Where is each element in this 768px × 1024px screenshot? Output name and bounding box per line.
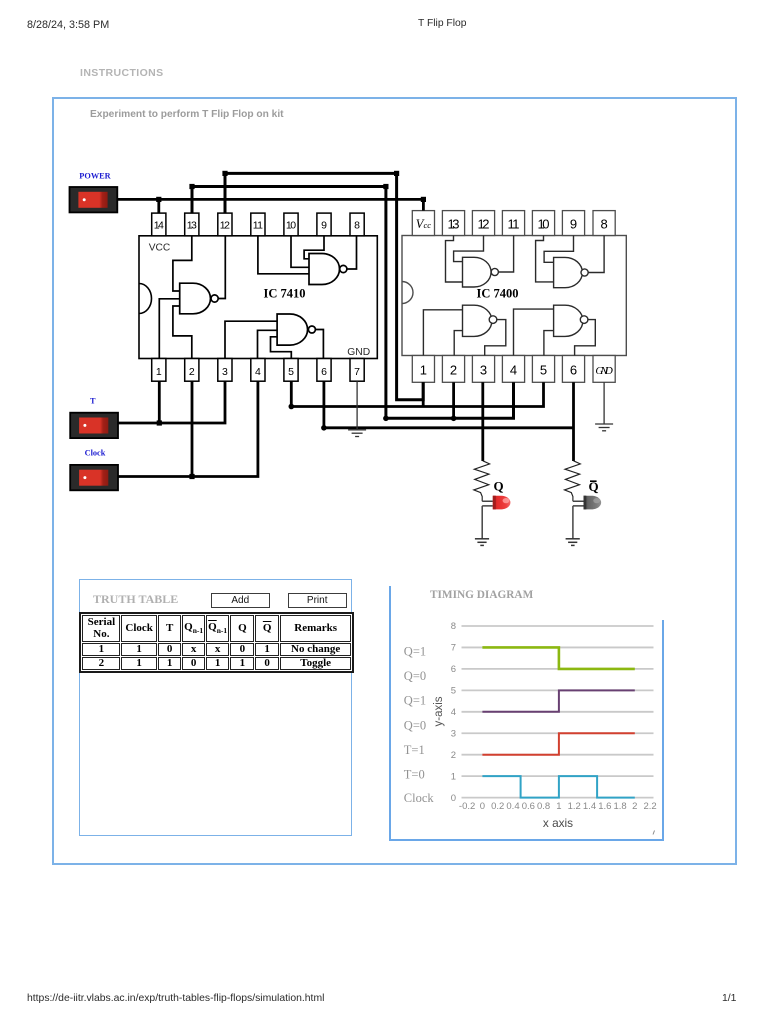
wire T switch to U1 pins 1,3 <box>118 381 225 423</box>
wire Clock switch to U1 pins 2,4 <box>118 381 258 476</box>
U1 gate C input wire from pin 4 <box>258 330 278 358</box>
U2 gate 1 output wire to pin 11 <box>498 236 513 273</box>
U2 gate 3 body <box>463 305 497 336</box>
U2 gate 4 body <box>554 305 588 336</box>
IC U2 bottom pin boxes 1-6,GND <box>412 356 615 383</box>
Print button <box>288 593 347 608</box>
print header date <box>27 19 109 31</box>
U2 gate 2 output wire to pin 8 <box>588 236 604 273</box>
IC U2 top pin labels <box>416 217 608 232</box>
IC U2 bottom pin labels <box>420 363 613 378</box>
svg-text:1: 1 <box>556 801 561 812</box>
svg-text:Clock: Clock <box>85 448 106 457</box>
footer page <box>722 993 736 1004</box>
svg-text:POWER: POWER <box>79 171 111 180</box>
svg-text:11: 11 <box>508 217 520 232</box>
svg-text:2: 2 <box>451 750 456 761</box>
wire U2 pin 2 drop <box>452 382 455 418</box>
IC U1 top pin boxes 14-8 <box>152 213 365 236</box>
svg-text:GND: GND <box>595 365 613 377</box>
svg-text:4: 4 <box>510 363 517 378</box>
POWER switch S1 <box>70 187 118 212</box>
U2 gate 2 body <box>554 257 589 287</box>
wire U2 pin 6 down to resistor R2 <box>572 382 575 461</box>
U1 gate C input wire from pin 5 <box>271 337 292 359</box>
junction dot at pin 14 branch <box>156 197 161 202</box>
IC U1 bottom pin boxes 1-7 <box>152 359 365 382</box>
wire U1 pin 2 drop <box>191 381 194 476</box>
svg-text:Vcc: Vcc <box>416 217 431 231</box>
footer url <box>27 993 324 1004</box>
series Clock blue <box>482 776 634 797</box>
IC U2 top pin boxes Vcc,13-8 <box>412 211 615 236</box>
LED D2 body (Qbar, dark) <box>584 496 602 510</box>
ground under U2 GND pin <box>595 382 613 431</box>
svg-text:14: 14 <box>154 220 164 232</box>
svg-text:8: 8 <box>600 217 607 232</box>
svg-text:Q=0: Q=0 <box>404 669 426 683</box>
ground under LED D1 <box>475 539 489 546</box>
U1 gate A output wire to pin 12 <box>218 236 225 299</box>
junction dot U1 pin 5 corner <box>289 404 295 410</box>
ground under U1 pin 7 <box>348 381 366 436</box>
svg-text:8: 8 <box>451 621 456 632</box>
wire U1 pin 5 to U2 pin 5 <box>291 381 543 406</box>
chart x tick labels <box>459 801 657 812</box>
svg-text:13: 13 <box>187 220 197 232</box>
series T red <box>482 733 634 754</box>
IC U2 body (IC 7400) <box>402 236 626 356</box>
svg-text:Q=1: Q=1 <box>404 645 426 659</box>
svg-text:12: 12 <box>220 220 230 232</box>
U1 gate B input wire from pin 11 <box>258 236 309 274</box>
U1 gate A body <box>180 283 219 314</box>
svg-text:3: 3 <box>451 728 456 739</box>
svg-text:-0.2: -0.2 <box>459 801 475 812</box>
svg-text:T=1: T=1 <box>404 743 425 757</box>
svg-text:T: T <box>90 396 96 405</box>
svg-text:3: 3 <box>222 366 228 378</box>
series Q green <box>482 647 634 668</box>
svg-text:9: 9 <box>570 217 577 232</box>
svg-text:2.2: 2.2 <box>643 801 656 812</box>
U1 gate A input wire from pin 2 <box>173 306 192 359</box>
svg-text:9: 9 <box>321 220 327 232</box>
wire U1 pin 1 drop <box>158 381 161 423</box>
resistor R2 <box>565 461 581 502</box>
svg-text:GND: GND <box>347 347 370 358</box>
U1 gate A input wire from pin 1 <box>159 299 179 359</box>
wire U2 pin 1 stem <box>422 382 425 406</box>
U1 gate B input wire from pin 10 <box>291 236 309 267</box>
series Qbar purple <box>482 690 634 711</box>
U2 gate 4 input wire from pin 5 <box>544 331 554 356</box>
U1 gate B body <box>309 254 347 285</box>
svg-text:Q: Q <box>494 478 504 493</box>
svg-text:0: 0 <box>480 801 485 812</box>
svg-text:1.8: 1.8 <box>613 801 626 812</box>
svg-text:0.4: 0.4 <box>506 801 519 812</box>
svg-text:1: 1 <box>156 366 162 378</box>
svg-text:10: 10 <box>286 220 296 232</box>
U2 gate 4 output wire to pin 6 <box>575 320 596 356</box>
U1 gate C body <box>277 314 315 345</box>
IC U1 notch <box>139 284 152 314</box>
svg-text:2: 2 <box>450 363 457 378</box>
wire U2 pin 3 down to resistor R1 <box>481 382 484 461</box>
chart y tick labels <box>451 621 456 804</box>
svg-text:10: 10 <box>538 217 550 232</box>
svg-text:Q=0: Q=0 <box>404 718 426 732</box>
U2 gate 2 input wire from pin 9 <box>544 236 573 263</box>
svg-text:6: 6 <box>321 366 327 378</box>
INSTRUCTIONS tab <box>80 67 164 79</box>
IC U2 notch <box>402 282 413 304</box>
svg-text:7: 7 <box>451 643 456 654</box>
svg-text:12: 12 <box>478 217 490 232</box>
svg-text:T=0: T=0 <box>404 768 425 782</box>
T switch S2 <box>70 413 118 438</box>
svg-text:5: 5 <box>540 363 547 378</box>
svg-text:IC 7400: IC 7400 <box>477 286 519 300</box>
svg-text:0.8: 0.8 <box>537 801 550 812</box>
svg-text:x axis: x axis <box>543 816 573 830</box>
label Qbar <box>589 479 599 494</box>
U2 gate 1 input wire from pin 12 <box>454 236 484 262</box>
chart gridlines <box>462 626 654 798</box>
svg-text:1.2: 1.2 <box>568 801 581 812</box>
resize tick mark <box>653 831 655 835</box>
svg-text:y-axis: y-axis <box>433 696 445 726</box>
Add button <box>211 593 270 608</box>
svg-text:2: 2 <box>632 801 637 812</box>
U2 gate 3 input wire from pin 1 <box>423 310 462 356</box>
U2 gate 1 input wire from pin 13 <box>446 236 463 283</box>
svg-text:5: 5 <box>288 366 294 378</box>
svg-text:2: 2 <box>189 366 195 378</box>
junction dot U2 pin 2 drop <box>451 416 457 422</box>
main bordered panel <box>52 97 736 865</box>
U2 gate 1 body <box>463 257 499 287</box>
wire U1 pin 13 to U2 pins 2,4 (top wire 2) <box>192 187 514 419</box>
timing panel borders <box>389 586 391 841</box>
LED D2 leads <box>573 501 584 539</box>
resistor R1 <box>474 461 490 502</box>
truth table panel <box>79 579 353 836</box>
IC U1 bottom pin numbers <box>156 366 360 378</box>
svg-text:6: 6 <box>570 363 577 378</box>
svg-text:1: 1 <box>451 771 456 782</box>
U2 gate 2 input wire from pin 10 <box>536 236 554 282</box>
svg-text:1.4: 1.4 <box>583 801 596 812</box>
U1 gate C input wire from pin 3 <box>225 321 277 358</box>
svg-text:0: 0 <box>451 793 456 804</box>
svg-text:5: 5 <box>451 686 456 697</box>
svg-text:VCC: VCC <box>149 242 171 253</box>
print header title <box>418 18 466 29</box>
svg-text:13: 13 <box>448 217 460 232</box>
junction dot U1 pin 6 corner <box>321 425 327 431</box>
Clock switch S3 <box>70 465 118 490</box>
chart row labels <box>404 645 435 806</box>
junction dot at vertical drop bottom <box>383 416 389 422</box>
svg-text:3: 3 <box>480 363 487 378</box>
LED D1 leads <box>482 501 493 539</box>
junction dot top wire 2 left <box>189 184 194 189</box>
svg-text:8: 8 <box>354 220 360 232</box>
svg-text:11: 11 <box>253 220 263 232</box>
experiment heading <box>90 109 284 120</box>
IC U1 body (IC 7410) <box>139 236 377 359</box>
svg-text:1.6: 1.6 <box>598 801 611 812</box>
junction dot top wire 2 right <box>383 184 388 189</box>
junction dot clock wire pin 2 <box>189 474 194 479</box>
svg-text:1: 1 <box>420 363 427 378</box>
U2 gate 4 input wire from pin 4 <box>514 309 554 355</box>
svg-text:Clock: Clock <box>404 791 435 805</box>
svg-text:IC 7410: IC 7410 <box>264 287 306 301</box>
IC U1 top pin numbers <box>154 220 360 232</box>
junction dot T wire pin 1 <box>157 420 162 425</box>
svg-text:4: 4 <box>451 707 456 718</box>
wire branch to U1 pin 14 <box>157 199 160 213</box>
U1 gate B output wire to pin 8 <box>347 236 357 269</box>
svg-text:6: 6 <box>451 664 456 675</box>
svg-text:Q=1: Q=1 <box>404 694 426 708</box>
U1 gate C output wire to pin 6 <box>315 330 323 359</box>
svg-text:4: 4 <box>255 366 261 378</box>
U2 gate 3 output wire to pin 3 <box>485 320 506 356</box>
junction dot top wire 1 right <box>394 171 399 176</box>
svg-text:7: 7 <box>354 366 360 378</box>
ground under LED D2 <box>566 539 580 546</box>
LED D1 body (Q, red) <box>493 496 511 510</box>
wire U1 pin 6 to U2 pin 6 column <box>324 381 574 428</box>
svg-text:0.6: 0.6 <box>522 801 535 812</box>
junction dot top wire 1 left <box>222 171 227 176</box>
U1 gate A input wire from pin 13 <box>173 236 192 291</box>
junction dot at U2 Vcc corner <box>421 197 426 202</box>
wire POWER to U2 Vcc <box>118 199 424 210</box>
wire U1 pin 12 to U2 pin 1 (top wire 1) <box>225 173 423 399</box>
U1 gate B input wire from pin 9 <box>304 236 324 259</box>
svg-text:0.2: 0.2 <box>491 801 504 812</box>
U2 gate 3 input wire from pin 2 <box>454 331 462 356</box>
